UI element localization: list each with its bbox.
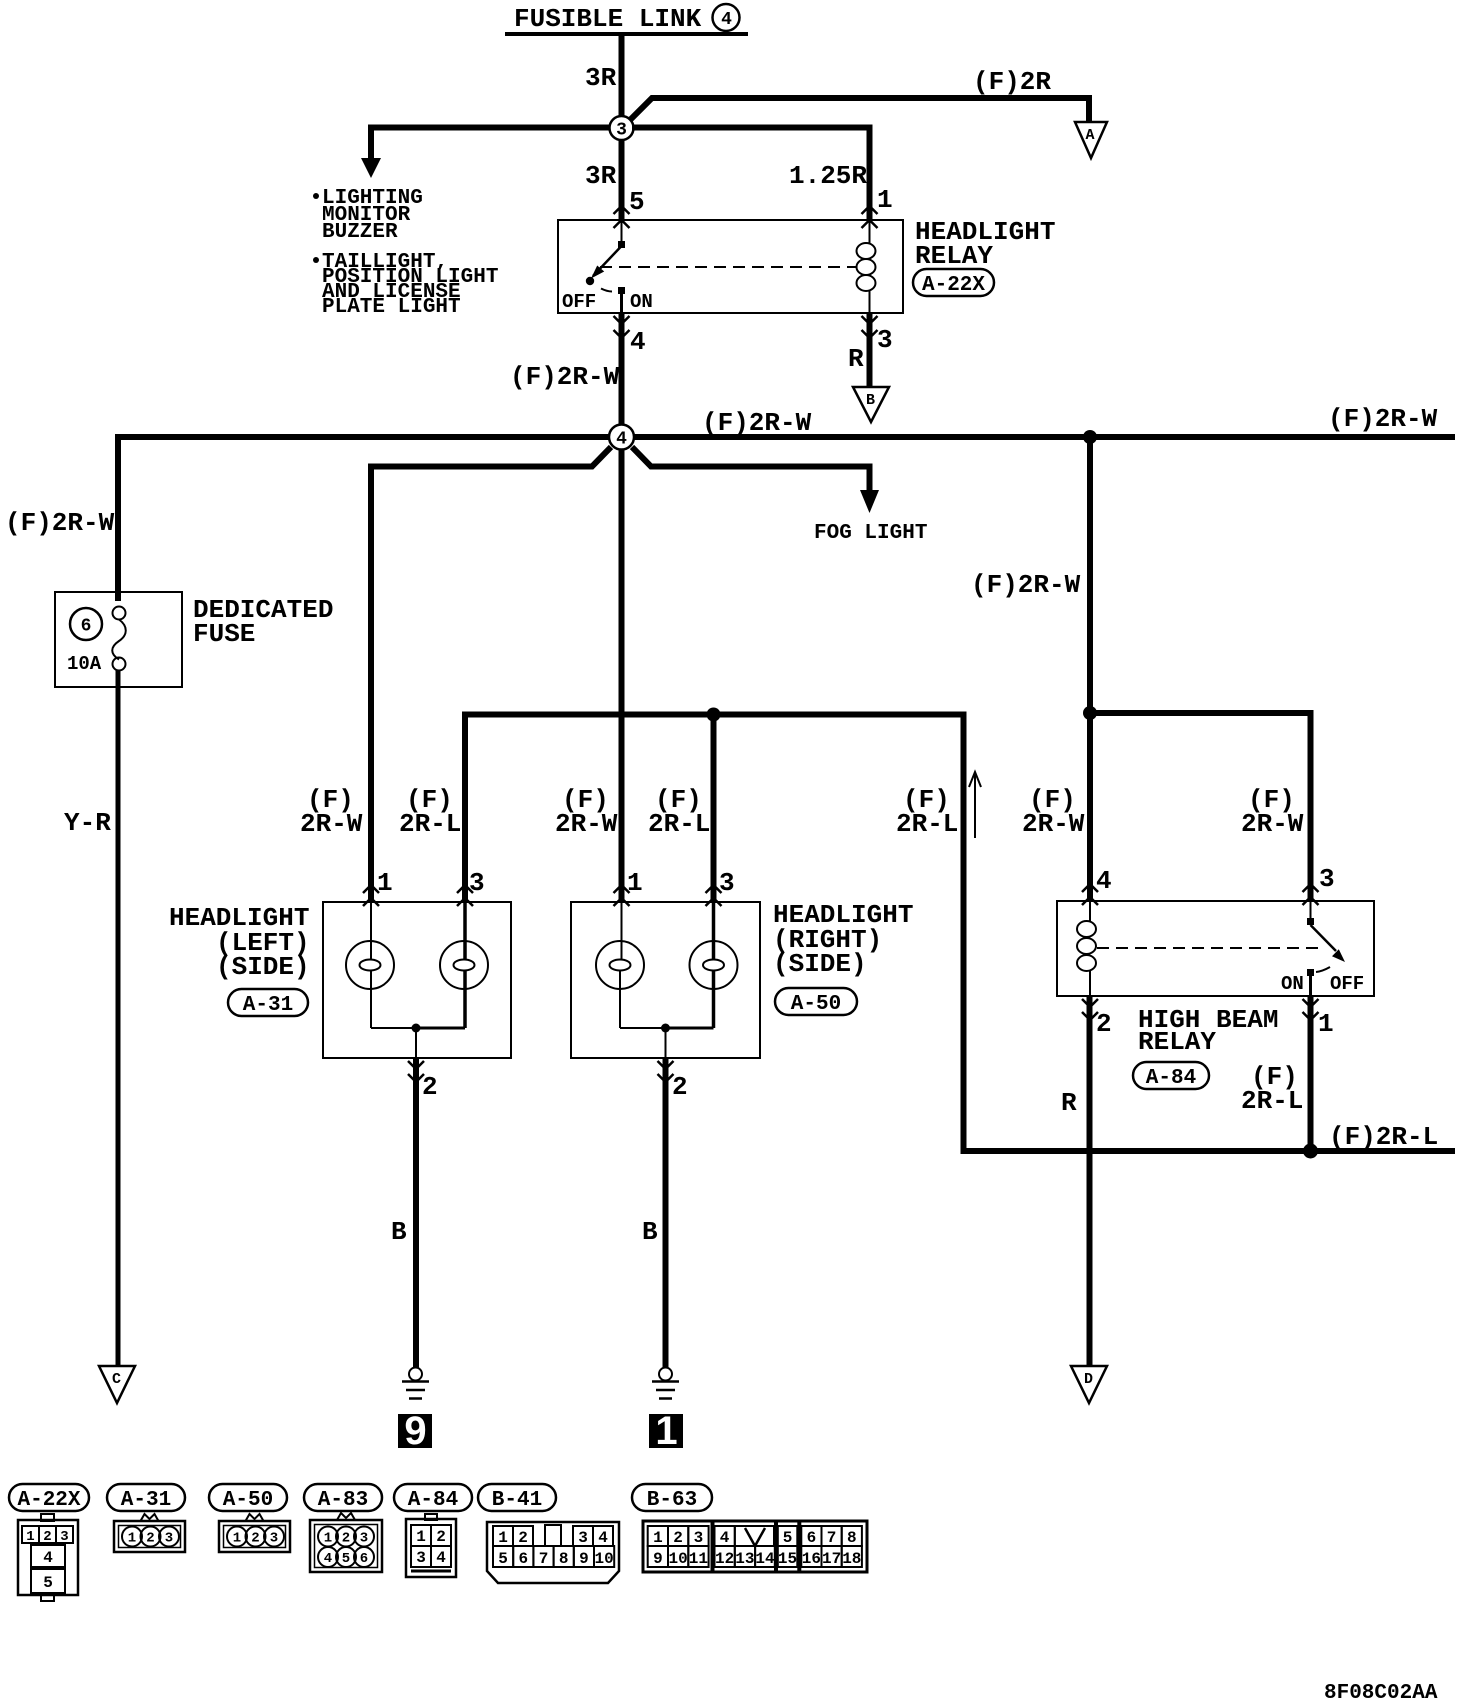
left headlight low beam bulb <box>346 902 394 1028</box>
wire: high beam pin 2 to page ref D <box>1087 996 1093 1366</box>
connector A-50 pinout <box>219 1514 290 1552</box>
net label (F)/2R-W at high beam pin 4 <box>1022 785 1085 839</box>
svg-text:FUSIBLE LINK: FUSIBLE LINK <box>514 4 702 34</box>
headlight left side name <box>169 903 310 982</box>
headlight left side lamp box A-31 <box>323 902 511 1058</box>
svg-text:13: 13 <box>735 1550 754 1568</box>
svg-text:5: 5 <box>498 1550 508 1568</box>
wire: high beam pin 1 down to 2R-L run <box>1308 996 1314 1151</box>
connector ref A-31 stadium <box>228 989 308 1017</box>
svg-text:BUZZER: BUZZER <box>322 221 398 244</box>
net label (F)/2R-L at 2R-L run <box>896 785 958 839</box>
connector A-83 pinout <box>310 1513 382 1572</box>
arrowhead to fog light <box>860 490 879 513</box>
svg-text:C: C <box>112 1371 121 1388</box>
svg-text:5: 5 <box>43 1574 53 1592</box>
pin 5 connector chevrons <box>614 206 630 228</box>
svg-text:18: 18 <box>842 1550 861 1568</box>
connector A-31 pinout <box>114 1514 185 1552</box>
wire: fusible link to node 3 <box>619 36 625 118</box>
right headlight pin 2 chevrons <box>658 1061 674 1082</box>
svg-text:5: 5 <box>629 187 645 217</box>
wire: high beam relay pin 3 run at y 713 <box>1090 713 1311 901</box>
svg-text:B: B <box>866 392 875 409</box>
arrowhead to lighting monitor buzzer <box>361 158 381 178</box>
svg-text:3: 3 <box>60 1529 68 1545</box>
svg-text:1: 1 <box>233 1531 241 1547</box>
wire: node 3 to (F)2R branch and page ref A <box>628 98 1089 122</box>
svg-text:6: 6 <box>518 1550 528 1568</box>
svg-text:3: 3 <box>578 1529 588 1547</box>
page reference arrow D <box>1071 1366 1107 1403</box>
net label (F)/2R-W at high beam pin 3 <box>1241 785 1304 839</box>
svg-text:8: 8 <box>559 1550 569 1568</box>
wire: fuse to page ref C (Y-R) <box>116 670 121 1366</box>
svg-text:A-50: A-50 <box>791 993 841 1016</box>
svg-text:1: 1 <box>128 1531 136 1547</box>
connector B-63 pinout <box>643 1521 867 1572</box>
svg-text:R: R <box>848 344 864 374</box>
svg-text:A-83: A-83 <box>318 1489 368 1512</box>
svg-text:3: 3 <box>416 1549 426 1567</box>
high beam relay pin 2 chevrons <box>1082 999 1098 1020</box>
connector B-41 pinout <box>487 1522 619 1583</box>
main bus wire (F)2R-W at y 437 <box>118 437 1455 601</box>
svg-text:10A: 10A <box>67 653 102 675</box>
svg-text:2R-L: 2R-L <box>399 809 461 839</box>
headlight right side name <box>773 900 913 979</box>
ground symbol 9 <box>402 1368 429 1399</box>
svg-text:4: 4 <box>721 10 732 30</box>
svg-text:4: 4 <box>1096 866 1112 896</box>
svg-text:OFF: OFF <box>1330 973 1364 995</box>
svg-text:FOG LIGHT: FOG LIGHT <box>814 522 927 545</box>
net label (F)/2R-L at right headlight pin 3 <box>648 785 710 839</box>
svg-text:(F)2R: (F)2R <box>973 67 1051 97</box>
wire: relay pin 4 to node 4 <box>619 313 625 425</box>
svg-text:6: 6 <box>807 1529 817 1547</box>
junction at y715 with right headlight pin 3 <box>707 708 721 722</box>
relay armature dashed link <box>600 266 856 268</box>
svg-text:9: 9 <box>579 1550 589 1568</box>
connector list labels <box>9 1484 89 1512</box>
svg-text:1.25R: 1.25R <box>789 161 867 191</box>
svg-text:(F)2R-W: (F)2R-W <box>510 362 620 392</box>
svg-text:2R-W: 2R-W <box>300 809 363 839</box>
svg-text:8F08C02AA: 8F08C02AA <box>1324 1682 1438 1704</box>
svg-text:(F)2R-W: (F)2R-W <box>702 408 812 438</box>
high beam relay dashed armature link <box>1097 947 1320 949</box>
svg-text:14: 14 <box>755 1550 775 1568</box>
svg-text:D: D <box>1084 1371 1093 1388</box>
svg-text:9: 9 <box>653 1550 663 1568</box>
svg-text:2R-W: 2R-W <box>555 809 618 839</box>
svg-text:(SIDE): (SIDE) <box>216 952 310 982</box>
svg-text:3: 3 <box>165 1531 173 1547</box>
connector ref A-22X stadium <box>913 269 994 297</box>
svg-text:15: 15 <box>778 1550 797 1568</box>
svg-text:OFF: OFF <box>562 291 596 313</box>
svg-text:2: 2 <box>422 1072 438 1102</box>
connector A-84 pinout <box>406 1514 456 1577</box>
left headlight pin 3 chevrons <box>457 885 473 906</box>
svg-text:3: 3 <box>694 1529 704 1547</box>
svg-text:16: 16 <box>802 1550 821 1568</box>
high beam relay U A-84 box <box>1057 901 1374 996</box>
svg-text:2R-L: 2R-L <box>648 809 710 839</box>
ground symbol 1 <box>652 1368 679 1399</box>
svg-text:3: 3 <box>469 868 485 898</box>
svg-text:12: 12 <box>715 1550 734 1568</box>
wire: left headlight pin3 up, across y 715, down to 2R-L run <box>465 715 1455 1152</box>
direction arrow on 2R-L run <box>969 772 981 838</box>
connector ref A-50 stadium <box>775 988 857 1016</box>
svg-text:B-63: B-63 <box>647 1489 697 1512</box>
junction on 2R-L run <box>1303 1144 1318 1159</box>
junction at bus and high beam feed <box>1083 430 1097 444</box>
node 4 <box>609 425 634 450</box>
page reference arrow C <box>99 1366 135 1403</box>
right headlight common return <box>620 1024 714 1059</box>
svg-text:1: 1 <box>1318 1009 1334 1039</box>
wire: node 4 down the center to right headlight pin 1 <box>619 449 625 902</box>
svg-text:3: 3 <box>1319 864 1335 894</box>
svg-text:A-31: A-31 <box>243 994 293 1017</box>
svg-text:2: 2 <box>342 1531 350 1547</box>
svg-text:2: 2 <box>672 1072 688 1102</box>
svg-text:B: B <box>391 1217 407 1247</box>
wire: relay pin 3 to page ref B <box>867 313 873 387</box>
svg-text:(F)2R-L: (F)2R-L <box>1329 1122 1438 1152</box>
wire: right headlight pin 2 to ground 1 (B) <box>663 1058 669 1368</box>
svg-text:3: 3 <box>270 1531 278 1547</box>
svg-text:2R-W: 2R-W <box>1022 809 1085 839</box>
fusible link 4 label <box>505 4 748 36</box>
svg-text:ON: ON <box>1281 973 1304 995</box>
headlight relay switch <box>586 220 625 313</box>
svg-text:A-31: A-31 <box>121 1489 171 1512</box>
connector A-22X pinout <box>18 1514 78 1601</box>
svg-text:1: 1 <box>877 185 893 215</box>
svg-text:4: 4 <box>43 1549 53 1567</box>
net label (F)/2R-W at right headlight pin 1 <box>555 785 618 839</box>
svg-text:7: 7 <box>539 1550 549 1568</box>
svg-text:4: 4 <box>630 327 646 357</box>
svg-text:(F)2R-W: (F)2R-W <box>1328 404 1438 434</box>
svg-text:1: 1 <box>627 868 643 898</box>
svg-text:2: 2 <box>518 1529 528 1547</box>
right headlight low beam bulb <box>596 902 644 1028</box>
wire: node 4 left branch to left headlight pin 1 <box>371 447 611 902</box>
pin 3 connector chevrons <box>862 316 878 338</box>
svg-text:7: 7 <box>827 1529 837 1547</box>
left headlight pin 2 chevrons <box>408 1061 424 1082</box>
svg-text:2: 2 <box>436 1528 446 1546</box>
svg-text:1: 1 <box>498 1529 508 1547</box>
svg-text:6: 6 <box>81 617 92 637</box>
dedicated fuse F6 <box>55 592 182 687</box>
svg-text:FUSE: FUSE <box>193 619 255 649</box>
svg-text:A-50: A-50 <box>223 1489 273 1512</box>
connector ref A-84 stadium <box>1133 1062 1209 1090</box>
svg-text:3R: 3R <box>585 63 617 93</box>
svg-text:4: 4 <box>598 1529 608 1547</box>
high beam relay pin 4 chevrons <box>1082 884 1098 905</box>
svg-text:2: 2 <box>251 1531 259 1547</box>
high beam relay switch <box>1307 901 1345 996</box>
svg-text:4: 4 <box>436 1549 446 1567</box>
headlight relay U A-22X box <box>558 220 903 313</box>
svg-text:2R-L: 2R-L <box>1241 1086 1303 1116</box>
svg-text:17: 17 <box>822 1550 841 1568</box>
svg-text:5: 5 <box>342 1551 350 1567</box>
svg-text:PLATE LIGHT: PLATE LIGHT <box>322 296 461 319</box>
ground ref 1 black square <box>649 1409 683 1453</box>
svg-text:ON: ON <box>630 291 653 313</box>
svg-text:11: 11 <box>689 1550 708 1568</box>
note text: lighting monitor buzzer / taillight <box>313 187 498 319</box>
svg-text:5: 5 <box>783 1529 793 1547</box>
net label (F)/2R-L at high beam pin 1 <box>1241 1062 1303 1116</box>
wire: node 3 left arm to lighting monitor buzzer <box>371 128 610 161</box>
high beam relay pin 3 chevrons <box>1303 884 1319 905</box>
svg-text:1: 1 <box>655 1409 677 1453</box>
left headlight pin 1 chevrons <box>363 885 379 906</box>
svg-text:4: 4 <box>720 1529 730 1547</box>
high beam relay pin 1 chevrons <box>1303 999 1319 1020</box>
left headlight common return <box>371 1024 465 1059</box>
right headlight pin 1 chevrons <box>614 885 630 906</box>
page reference arrow B <box>853 387 889 422</box>
svg-text:2: 2 <box>673 1529 683 1547</box>
wire: right headlight pin 3 to junction <box>711 715 717 903</box>
svg-text:2: 2 <box>146 1531 154 1547</box>
svg-text:3: 3 <box>719 868 735 898</box>
svg-text:1: 1 <box>416 1528 426 1546</box>
svg-text:3: 3 <box>877 325 893 355</box>
wire: bus junction down to high beam relay pin 4 <box>1087 443 1093 901</box>
svg-text:R: R <box>1061 1088 1077 1118</box>
svg-text:A: A <box>1085 127 1094 144</box>
svg-text:RELAY: RELAY <box>915 241 993 271</box>
junction at (1090,713) <box>1083 706 1097 720</box>
net label (F)/2R-L at left headlight pin 3 <box>399 785 461 839</box>
svg-text:(F)2R-W: (F)2R-W <box>5 508 115 538</box>
svg-text:A-84: A-84 <box>1146 1067 1196 1090</box>
wire: node 3 to relay pin 5 <box>619 140 625 220</box>
svg-text:3R: 3R <box>585 161 617 191</box>
svg-text:B-41: B-41 <box>492 1489 542 1512</box>
svg-text:(F)2R-W: (F)2R-W <box>971 570 1081 600</box>
svg-text:9: 9 <box>404 1409 426 1453</box>
wire: node 4 right branch to fog light <box>632 447 870 492</box>
svg-text:A-22X: A-22X <box>17 1489 80 1512</box>
pin 1 connector chevrons <box>862 206 878 228</box>
svg-text:B: B <box>642 1217 658 1247</box>
svg-text:10: 10 <box>594 1550 613 1568</box>
svg-text:4: 4 <box>324 1551 332 1567</box>
net label (F)/2R-W at left headlight pin 1 <box>300 785 363 839</box>
svg-text:10: 10 <box>668 1550 687 1568</box>
page reference arrow A <box>1075 122 1107 158</box>
svg-text:2: 2 <box>43 1529 51 1545</box>
svg-text:2: 2 <box>1096 1009 1112 1039</box>
svg-text:6: 6 <box>360 1551 368 1567</box>
svg-text:1: 1 <box>377 868 393 898</box>
svg-text:4: 4 <box>616 430 627 450</box>
headlight right side lamp box A-50 <box>571 902 760 1058</box>
node 3 <box>610 116 634 141</box>
svg-text:A-22X: A-22X <box>922 274 985 297</box>
wire: node 3 to relay pin 1 <box>632 128 870 221</box>
svg-text:1: 1 <box>653 1529 663 1547</box>
headlight relay coil <box>857 220 876 313</box>
svg-text:1: 1 <box>26 1529 34 1545</box>
svg-text:A-84: A-84 <box>408 1489 458 1512</box>
svg-text:8: 8 <box>847 1529 857 1547</box>
svg-text:2R-L: 2R-L <box>896 809 958 839</box>
pin 4 connector chevrons <box>614 316 630 338</box>
svg-text:RELAY: RELAY <box>1138 1027 1216 1057</box>
svg-text:2R-W: 2R-W <box>1241 809 1304 839</box>
left headlight high beam bulb <box>440 902 488 1028</box>
right headlight pin 3 chevrons <box>706 885 722 906</box>
ground ref 9 black square <box>398 1409 432 1453</box>
high beam relay coil <box>1077 901 1096 996</box>
high beam relay name <box>1138 1005 1278 1057</box>
svg-text:3: 3 <box>616 121 627 141</box>
svg-text:Y-R: Y-R <box>64 808 111 838</box>
right headlight high beam bulb <box>690 902 738 1028</box>
svg-text:(SIDE): (SIDE) <box>773 949 867 979</box>
svg-text:1: 1 <box>324 1531 332 1547</box>
svg-text:3: 3 <box>360 1531 368 1547</box>
wire: left headlight pin 2 to ground 9 (B) <box>413 1058 419 1368</box>
